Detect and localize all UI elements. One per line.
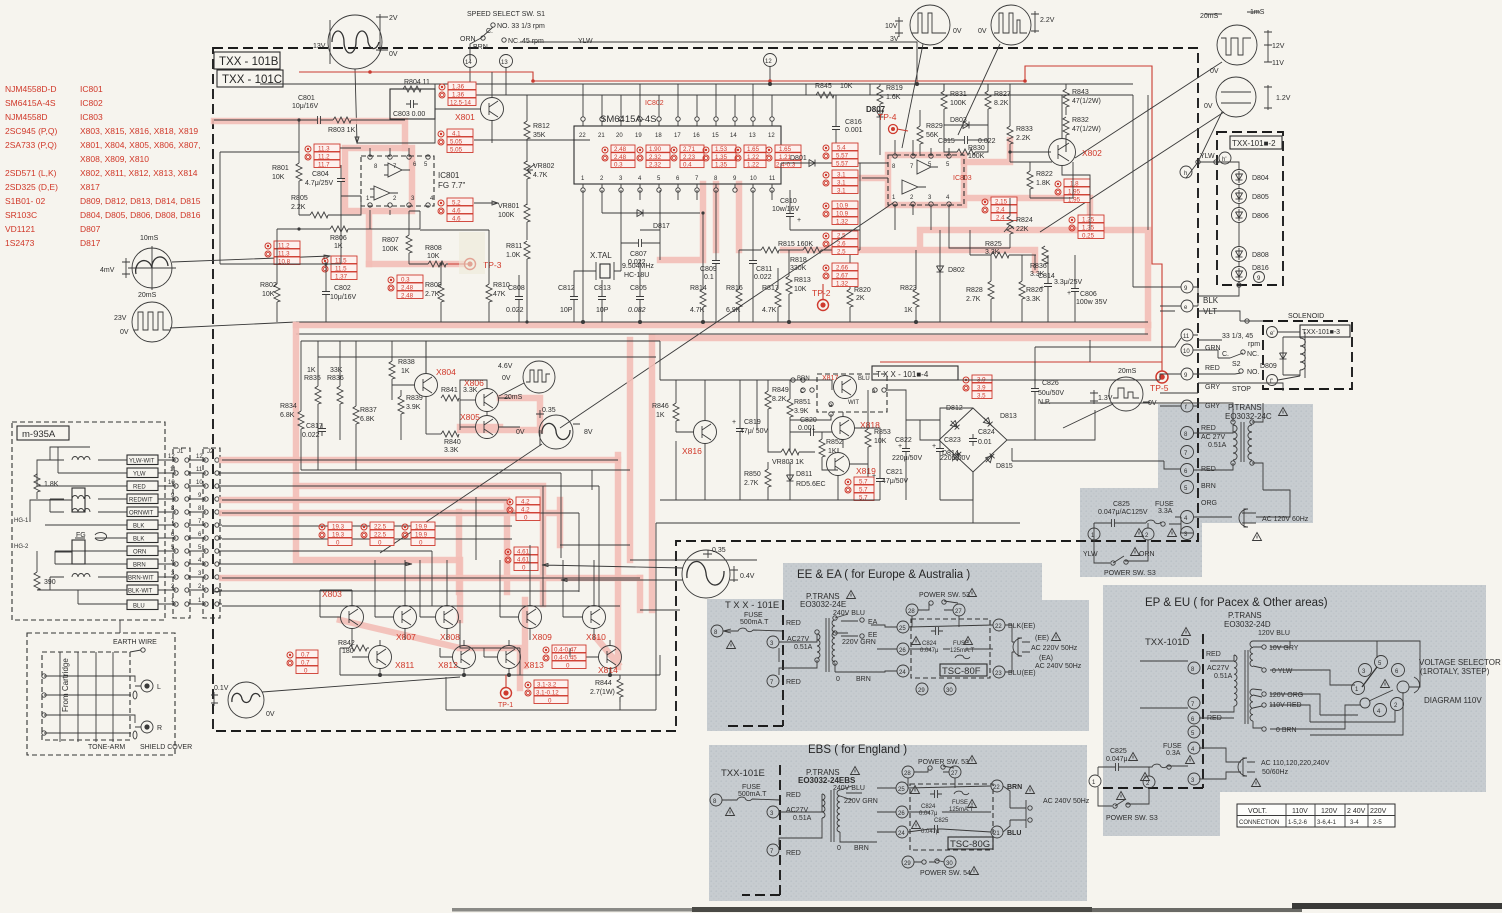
svg-text:10.9: 10.9 [836,203,849,210]
svg-text:TSC-80G: TSC-80G [950,839,990,850]
svg-text:C825: C825 [934,818,949,824]
C820 capacitor [790,417,832,436]
svg-text:21: 21 [598,133,605,139]
svg-text:26: 26 [898,811,905,817]
svg-text:SPEED SELECT SW. S1: SPEED SELECT SW. S1 [467,11,545,18]
svg-text:R802: R802 [260,282,277,289]
svg-text:1.8: 1.8 [1070,181,1079,188]
R841 resistor [441,387,478,401]
R834 resistor [280,341,304,470]
svg-text:22K: 22K [1016,226,1029,233]
R808 resistor [409,245,462,267]
svg-text:0.3A: 0.3A [1166,750,1181,757]
wire label boxes in m-935A [127,455,158,610]
EE&EA title [797,569,970,581]
svg-text:15: 15 [712,133,719,139]
R807 resistor [382,211,412,264]
svg-text:0V: 0V [120,329,129,336]
waveform scope W4 [1075,9,1285,158]
svg-text:10μ/16V: 10μ/16V [330,294,357,301]
svg-text:13: 13 [501,60,508,66]
svg-text:33K: 33K [330,367,343,374]
svg-text:8.2K: 8.2K [772,396,787,403]
svg-text:RED: RED [1205,365,1220,372]
svg-text:0.001: 0.001 [845,127,863,134]
IC803 opamp A [917,160,938,174]
wires bridge to right edge [1012,403,1181,469]
svg-text:D817: D817 [80,238,101,248]
TP-1 [498,675,513,709]
waveform scope W2 [885,5,962,148]
svg-text:R852: R852 [826,439,843,446]
24C transformer [1181,403,1288,490]
R840 resistor [426,431,461,454]
resistor 390 [34,551,56,590]
svg-text:1.0K: 1.0K [506,252,521,259]
svg-text:RED: RED [1201,466,1216,473]
svg-text:SR103C: SR103C [5,210,37,220]
svg-text:D804, D805, D806, D808, D816: D804, D805, D806, D808, D816 [80,210,201,220]
svg-text:NJM4558D: NJM4558D [5,112,48,122]
svg-text:100K: 100K [382,246,399,253]
svg-text:N.P.: N.P. [1038,399,1051,406]
svg-text:BLK: BLK [1203,296,1219,305]
jack R [133,721,162,739]
R838 resistor [389,341,415,400]
24C fuse and plug [1094,490,1309,541]
X817 dashed box [817,374,887,412]
EBS C824 FUSE C825 [911,786,977,836]
svg-text:29: 29 [904,861,911,867]
svg-text:R851: R851 [794,399,811,406]
svg-text:R850: R850 [744,471,761,478]
svg-text:13V: 13V [313,43,326,50]
svg-text:0V: 0V [516,429,525,436]
svg-text:4.2: 4.2 [521,499,530,506]
svg-text:R813: R813 [794,277,811,284]
svg-text:T X X - 101E: T X X - 101E [725,600,779,611]
svg-text:0.51A: 0.51A [793,815,812,822]
R815 resistor [739,241,813,253]
svg-text:AC 110,120,220,240V: AC 110,120,220,240V [1261,760,1330,767]
waveform scope W1 [313,14,398,143]
svg-text:R836: R836 [327,375,344,382]
C821 capacitor [872,460,909,500]
R843 resistor [1063,84,1101,115]
svg-text:0V: 0V [978,28,987,35]
D817 diode [602,190,700,230]
svg-text:C824: C824 [921,804,936,810]
R835 resistor [304,341,321,470]
R810 resistor [486,230,510,322]
red stack 2.66 [823,263,858,288]
svg-text:EARTH WIRE: EARTH WIRE [113,639,157,646]
R802 resistor [260,229,280,322]
svg-text:10: 10 [168,480,175,486]
svg-text:2.71: 2.71 [683,146,696,153]
svg-text:4.6: 4.6 [452,216,461,223]
VR801 trimmer [498,203,530,240]
transistor X804 [392,341,456,420]
svg-text:TSC-80F: TSC-80F [942,666,981,677]
connector 9 small [1254,272,1265,283]
svg-text:1S2473: 1S2473 [5,238,35,248]
svg-text:18: 18 [655,133,662,139]
R826 resistor [1019,255,1043,322]
circle 6 [1181,464,1216,477]
svg-text:R845: R845 [815,83,832,90]
svg-text:100w 35V: 100w 35V [1076,299,1107,306]
svg-text:5.05: 5.05 [450,147,463,154]
svg-text:EE & EA ( for Europe & Aust: EE & EA ( for Europe & Australia ) [797,569,970,581]
pink trace X805 loop [460,398,540,430]
svg-text:HG-2: HG-2 [14,544,29,550]
svg-text:C.: C. [1222,351,1229,358]
svg-text:0.3: 0.3 [614,162,623,169]
solenoid coil [1278,332,1305,380]
connector circle 12 [764,54,777,85]
waveform scope W5 [1040,77,1291,232]
svg-text:0.001: 0.001 [798,425,816,432]
svg-text:16: 16 [693,133,700,139]
R809 resistor [425,262,444,322]
svg-text:D808: D808 [1252,252,1269,259]
svg-text:R823: R823 [900,285,917,292]
svg-text:20mS: 20mS [1118,368,1137,375]
coil in m-935A row BRN-WIT [72,574,90,578]
gray panel EE&EA [707,563,1089,731]
gray panel EP&EU [1103,585,1486,836]
svg-text:0: 0 [304,668,308,675]
circle 3 [1181,527,1194,540]
svg-text:C803 0.00: C803 0.00 [393,111,425,118]
svg-text:2.7K: 2.7K [966,296,981,303]
X816-X819 region wires [660,338,1181,500]
tone-arm shield block [27,633,192,755]
svg-text:2.67: 2.67 [836,273,849,280]
connector h' [1200,152,1231,164]
svg-text:C804: C804 [312,171,329,178]
transistor X807 [375,580,417,642]
C812 capacitor [558,271,583,322]
IC802 bottom pins [581,176,776,192]
svg-text:0.022: 0.022 [506,307,524,314]
svg-text:TXX-101E: TXX-101E [721,768,765,779]
R846 resistor [652,380,679,432]
svg-text:EO3032-24EBS: EO3032-24EBS [798,776,856,785]
R853 resistor [865,390,891,500]
diode chain wires [1196,160,1241,291]
svg-text:FUSE: FUSE [953,641,969,647]
C808 capacitor [506,275,525,322]
svg-text:2SD325 (D,E): 2SD325 (D,E) [5,182,58,192]
svg-text:BLK-WIT: BLK-WIT [128,589,153,595]
svg-text:X802, X811, X812, X813, X814: X802, X811, X812, X813, X814 [80,168,198,178]
svg-text:0V: 0V [389,51,398,58]
C817 capacitor [302,423,326,439]
svg-text:1K: 1K [828,448,837,455]
svg-text:h: h [1184,171,1187,177]
red parts list [5,84,201,248]
R839 resistor [398,390,423,440]
svg-text:D816: D816 [1252,265,1269,272]
transistor X814 [582,640,622,675]
svg-text:POWER SW. S3: POWER SW. S3 [1106,815,1158,822]
svg-text:2.15: 2.15 [995,199,1008,206]
EBS dashed border [742,765,780,895]
D811 diode [787,462,826,500]
svg-text:47μ/50V: 47μ/50V [882,478,909,485]
svg-text:12: 12 [168,454,175,460]
coil in m-935A row4 [72,496,90,500]
X.TAL [583,251,654,280]
EBS right wires [1003,786,1032,832]
transistor X810 [563,580,606,642]
svg-text:10.9: 10.9 [836,211,849,218]
svg-text:C816: C816 [845,119,862,126]
R836 resistor [1030,246,1048,278]
C809 capacitor [700,190,720,322]
svg-text:22.5: 22.5 [374,524,387,531]
red stack 10.9 [823,201,858,226]
svg-text:RED: RED [1206,651,1221,658]
transistor X811 [352,640,414,675]
svg-text:2SC945 (P,Q): 2SC945 (P,Q) [5,126,57,136]
R812 resistor [524,95,550,162]
svg-text:0: 0 [836,676,840,683]
svg-text:2.7K: 2.7K [425,291,440,298]
EBS power switch S3 [902,756,977,789]
IC803 pins bottom [892,195,951,206]
R820 resistor [847,230,871,322]
IC803 pins top [892,154,951,170]
svg-text:8.2K: 8.2K [994,100,1009,107]
svg-text:1.65: 1.65 [779,146,792,153]
waveform scope W10 [542,547,755,598]
svg-text:4.61: 4.61 [517,549,530,556]
bottom scan edge [452,908,692,912]
EP&EU power switch [1089,767,1158,822]
svg-text:R831: R831 [950,91,967,98]
svg-text:0: 0 [336,540,340,547]
svg-text:R844: R844 [595,680,612,687]
svg-text:VR803 1K: VR803 1K [772,459,804,466]
svg-text:4.7K: 4.7K [690,307,705,314]
svg-text:VLT: VLT [1203,307,1217,316]
svg-text:BRN: BRN [473,44,488,51]
svg-text:R809: R809 [425,282,442,289]
right edge circle 9 [1181,281,1193,293]
svg-text:1.35: 1.35 [715,162,728,169]
svg-text:From Cartridge: From Cartridge [61,658,70,712]
R824 resistor [1004,198,1033,248]
EBS circle 7 [767,844,801,857]
svg-text:NC. 45 rpm: NC. 45 rpm [508,38,544,45]
svg-text:1.95: 1.95 [1068,189,1081,196]
red stack 0.3 [388,275,423,300]
circle 7 [1181,446,1194,459]
svg-text:1.35: 1.35 [1082,225,1095,232]
R806 resistor [297,226,420,250]
earth wire circle [130,648,145,652]
svg-text:AC 220V 50Hz: AC 220V 50Hz [1031,645,1078,652]
svg-text:RED: RED [1201,425,1216,432]
wires right edge to diode chain [1133,95,1239,311]
R823 resistor [900,250,919,322]
svg-text:R853: R853 [874,429,891,436]
svg-text:110V RED: 110V RED [1269,702,1302,709]
svg-text:22: 22 [995,624,1002,630]
svg-text:m-935A: m-935A [22,429,56,440]
TP-5 [1150,371,1169,393]
svg-text:IC801: IC801 [438,171,460,180]
svg-text:3.3K: 3.3K [1026,296,1041,303]
waveform scope W11 [211,677,460,718]
svg-text:D814: D814 [942,450,959,457]
svg-text:J2: J2 [207,449,214,455]
VOLT CONNECTION table [1237,804,1395,827]
svg-text:AC27V: AC27V [1207,665,1230,672]
svg-text:2K: 2K [856,295,865,302]
svg-text:23: 23 [995,671,1002,677]
svg-text:10: 10 [196,480,203,486]
R818 resistor [790,247,860,272]
EP&EU transformer [1199,641,1303,734]
red stack 2.15 [982,197,1017,222]
svg-text:19.3: 19.3 [332,524,345,531]
svg-text:DIAGRAM 110V: DIAGRAM 110V [1424,696,1482,705]
svg-text:12.5-14: 12.5-14 [450,100,472,107]
EE&EA circle 8 [711,625,723,637]
X802 collector wires [560,84,1090,428]
svg-text:2.7(1W): 2.7(1W) [590,689,615,696]
IC802 red stacks row [602,145,801,169]
svg-text:R805: R805 [291,195,308,202]
red stack 1.36 [439,82,476,107]
svg-text:14: 14 [730,133,737,139]
svg-text:2.48: 2.48 [401,293,414,300]
connector column J1 [173,448,190,618]
svg-text:120V: 120V [1321,808,1338,815]
svg-text:5.57: 5.57 [836,161,849,168]
svg-text:WIT: WIT [848,400,859,406]
svg-text:BLK: BLK [133,537,144,543]
svg-text:TXX-101■-2: TXX-101■-2 [1232,139,1276,148]
EBS right labels [1007,784,1090,837]
svg-text:1K: 1K [334,243,343,250]
red branch wire to TP-5 row [880,361,1162,363]
svg-text:+: + [797,217,801,224]
svg-text:220V GRN: 220V GRN [844,798,878,805]
svg-text:2.48: 2.48 [614,154,627,161]
pink trace around X802 area [964,140,1010,162]
svg-text:R819: R819 [886,85,903,92]
svg-text:D802: D802 [948,267,965,274]
svg-text:2.2K: 2.2K [1016,135,1031,142]
svg-text:2.4: 2.4 [996,215,1005,222]
connector c circle [791,378,805,382]
svg-text:C807: C807 [630,251,647,258]
transistor X819 [827,448,877,500]
R814 resistor [690,211,707,322]
svg-text:2.66: 2.66 [836,265,849,272]
svg-text:11: 11 [769,176,776,182]
pink traces middle area [296,325,460,620]
svg-text:30: 30 [946,861,953,867]
svg-text:C817: C817 [306,423,323,430]
C824 capacitor [969,429,995,446]
svg-text:D811: D811 [796,471,812,478]
svg-text:11: 11 [196,467,203,473]
EBS connector circles [896,780,1003,868]
D802 diode [937,230,965,322]
EP&EU selector wires [1270,641,1420,735]
right edge circle f [1181,400,1220,412]
svg-text:TP-3: TP-3 [483,260,502,270]
svg-text:NO. 33 1/3 rpm: NO. 33 1/3 rpm [497,23,545,30]
svg-text:14: 14 [465,60,472,66]
svg-text:12V: 12V [1272,43,1285,50]
C802 capacitor [322,262,357,322]
center column wires [583,84,888,322]
signal wires from connector to middle [213,460,640,606]
svg-text:X809: X809 [532,632,552,642]
svg-text:0.35: 0.35 [712,547,726,554]
C804 capacitor [305,165,345,196]
svg-text:4.6V: 4.6V [498,363,513,370]
svg-text:10K: 10K [427,253,440,260]
C806 capacitor [1067,255,1107,322]
svg-text:C812: C812 [558,285,575,292]
EE&EA fuse [723,612,783,649]
svg-text:TONE-ARM: TONE-ARM [88,744,125,751]
pink bus second [652,325,1148,338]
svg-text:50/60Hz: 50/60Hz [1262,769,1289,776]
svg-text:5.05: 5.05 [450,139,463,146]
svg-text:C801: C801 [298,95,315,102]
svg-text:ORNWIT: ORNWIT [129,511,154,517]
svg-text:J1: J1 [177,449,184,455]
red stack 4.2 [507,497,540,522]
svg-text:EBS ( for England ): EBS ( for England ) [808,744,907,756]
svg-text:R: R [157,725,162,732]
D804 diode circle [1232,170,1269,185]
svg-text:19.9: 19.9 [415,524,428,531]
svg-text:0: 0 [548,698,552,705]
svg-text:1.65: 1.65 [747,146,760,153]
pink trace mid verticals [560,338,652,610]
IC801 opamp B [370,186,398,200]
svg-text:3.1: 3.1 [837,188,846,195]
svg-text:3.3A: 3.3A [1158,508,1173,515]
TP-2 [812,284,831,311]
TXX-101-4 label [872,366,958,380]
svg-text:D804: D804 [1252,175,1269,182]
svg-text:R832: R832 [1072,117,1089,124]
svg-text:D803: D803 [950,117,967,124]
svg-text:SOLENOID: SOLENOID [1288,313,1324,320]
svg-text:2.7K: 2.7K [744,480,759,487]
solenoid block TXX-101-3 [1263,313,1352,389]
svg-text:R824: R824 [1016,217,1033,224]
svg-text:R833: R833 [1016,126,1033,133]
svg-text:0.4: 0.4 [683,162,692,169]
EBS transformer [779,767,878,853]
svg-text:FUSE: FUSE [952,800,968,806]
svg-text:C826: C826 [1042,380,1059,387]
svg-text:22: 22 [993,785,1000,791]
transistor X808 [420,580,460,642]
